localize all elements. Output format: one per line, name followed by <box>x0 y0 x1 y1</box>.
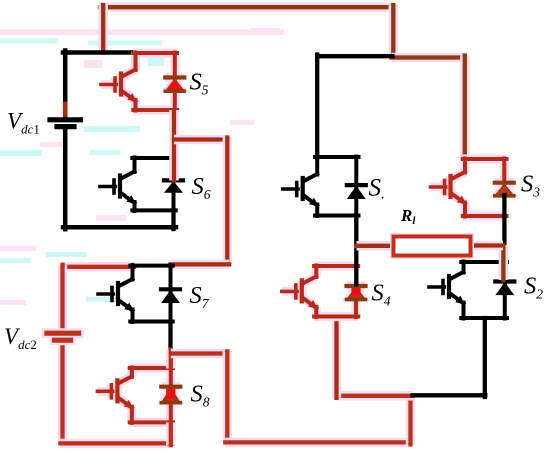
wire to S3 top <box>392 53 465 63</box>
wire S1-S4 midpoint column <box>354 216 358 285</box>
wire bottom mid rail <box>225 438 412 448</box>
battery Vdc1 <box>50 120 81 127</box>
transistor S6 (IGBT with diode) <box>100 158 183 211</box>
svg-text:S6: S6 <box>192 173 211 202</box>
wire midpoint link horizontal lower <box>171 260 230 270</box>
wire midpoint link horizontal upper <box>174 135 229 145</box>
wire S8 node to output column <box>171 349 229 359</box>
wire top rail <box>100 2 395 12</box>
wire S5-S6 midpoint column <box>169 110 179 181</box>
wire S6 diode to bottom rail <box>171 210 175 229</box>
wire S4 output horizontal <box>337 391 413 401</box>
wire Vdc2 top rail <box>63 262 135 272</box>
svg-text:Vdc2: Vdc2 <box>4 324 37 352</box>
wire output column left <box>223 352 233 444</box>
svg-text:S8: S8 <box>191 381 210 410</box>
wire midpoint link vertical <box>223 138 233 265</box>
transistor S5 (IGBT with diode) <box>101 53 184 111</box>
battery Vdc2 <box>47 333 79 340</box>
transistor S8 (IGBT with diode) <box>97 368 180 423</box>
wire top-left vertical drop <box>98 5 108 53</box>
svg-text:S3: S3 <box>521 171 540 200</box>
wire resistor junction drop <box>499 245 509 280</box>
transistor S2 (IGBT with diode) <box>429 262 514 319</box>
transistor S7 (IGBT with diode) <box>98 265 180 322</box>
wire bridge top rail <box>317 54 392 58</box>
wire S2 output horizontal <box>413 393 486 397</box>
svg-text:S7: S7 <box>190 282 210 311</box>
wire red tick above Vdc1 <box>63 104 68 115</box>
wire S3-S2 midpoint column black <box>502 195 506 262</box>
wire S3 feed vertical <box>460 56 470 161</box>
wire S8 node vertical <box>166 350 176 369</box>
svg-text:S2: S2 <box>524 273 543 302</box>
svg-text:S5: S5 <box>190 69 209 98</box>
wire resistor right lead <box>470 241 504 251</box>
wire S7 diode column to S8 node <box>168 322 172 352</box>
svg-text:S.: S. <box>369 175 386 203</box>
wire Vdc1 top rail <box>63 50 137 55</box>
wire Vdc1 bottom rail <box>63 225 176 230</box>
svg-text:Rl: Rl <box>400 206 416 227</box>
wire Vdc1 left rail upper <box>63 51 68 118</box>
svg-text:Vdc1: Vdc1 <box>7 109 40 137</box>
wire S4 output vertical <box>332 317 342 398</box>
resistor Rl <box>394 237 471 256</box>
wire S8 diode to bottom rail <box>166 422 176 445</box>
wire bottom right riser <box>406 396 416 445</box>
transistor S1 (IGBT with diode) <box>283 157 366 217</box>
wire S2 output vertical <box>483 318 487 397</box>
wire resistor left lead <box>357 241 395 251</box>
wire Vdc1 left rail lower <box>63 129 68 230</box>
svg-text:S4: S4 <box>372 280 391 309</box>
wire top-right vertical drop <box>389 5 399 57</box>
wire Vdc2 left rail upper <box>58 265 68 331</box>
wire S1 feed vertical <box>315 55 319 158</box>
transistor S4 (IGBT with diode) <box>282 266 366 318</box>
transistor S3 (IGBT with diode) <box>431 159 514 217</box>
wire Vdc2 left rail lower <box>58 343 68 444</box>
wire Vdc2 bottom rail <box>60 439 172 449</box>
